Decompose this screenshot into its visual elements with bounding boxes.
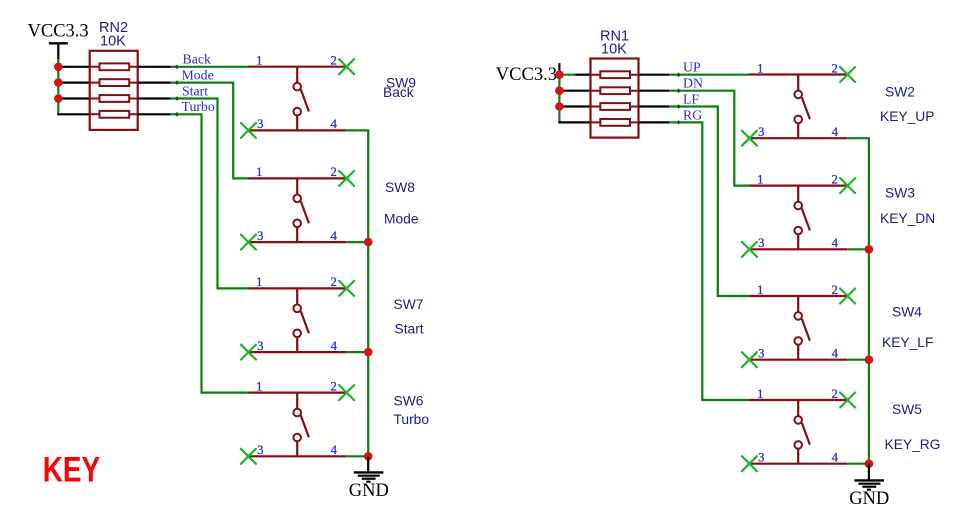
wire RN1 output row 2 (black)	[639, 90, 670, 92]
svg-text:Back: Back	[383, 85, 414, 100]
ground GND (right)	[849, 464, 889, 509]
SW7 upper stub	[296, 288, 298, 304]
SW2 no-connect X on pin 3	[742, 131, 757, 146]
SW5 lower stub	[797, 449, 799, 464]
wire GND collector (left)	[346, 130, 368, 456]
RN1 resistor element 1	[600, 71, 630, 78]
SW5 upper contact circle	[794, 416, 802, 424]
svg-text:Turbo: Turbo	[182, 99, 215, 114]
svg-text:Start: Start	[395, 322, 424, 337]
wire VCC to RN1 row 1 (black segment)	[576, 74, 592, 76]
wire SW7 pin4 to collector	[346, 351, 368, 353]
svg-text:1: 1	[256, 165, 262, 179]
SW2 upper stub	[797, 75, 799, 91]
SW2 wire pin1-pin2	[749, 73, 847, 75]
SW2 no-connect X on pin 2	[840, 67, 855, 82]
RN2 internal lead row 3	[90, 98, 138, 100]
svg-text:Turbo: Turbo	[394, 412, 430, 427]
RN2 resistor element 4	[100, 111, 130, 118]
svg-text:4: 4	[832, 347, 839, 361]
SW4 no-connect X on pin 2	[840, 289, 855, 304]
RN1 internal lead row 3	[591, 106, 639, 108]
wire VCC to RN2 pin row 3 (left)	[57, 97, 90, 99]
svg-text:3: 3	[257, 117, 263, 131]
junction VCC bus row 2 (left)	[54, 78, 63, 87]
SW9 lower contact circle	[293, 108, 301, 116]
svg-text:3: 3	[758, 236, 764, 250]
svg-text:DN: DN	[683, 76, 703, 91]
SW9 wire pin1-pin2	[248, 66, 346, 68]
svg-text:10K: 10K	[601, 42, 627, 58]
SW4 lower contact circle	[794, 337, 802, 345]
net label tick RG	[676, 120, 681, 125]
SW6 no-connect X on pin 2	[339, 385, 354, 400]
SW6 wire pin3-pin4	[248, 455, 346, 457]
SW4 upper contact circle	[794, 312, 802, 320]
SW2 actuator arm	[802, 97, 810, 119]
svg-text:Mode: Mode	[384, 212, 419, 227]
SW6 no-connect X on pin 3	[241, 449, 256, 464]
junction SW7 pin4 (left)	[364, 348, 373, 357]
svg-text:3: 3	[758, 451, 764, 465]
wire VCC to RN2 pin row 1 (left)	[57, 66, 90, 68]
svg-text:KEY_RG: KEY_RG	[885, 437, 941, 452]
SW3 actuator arm	[802, 208, 810, 230]
svg-text:2: 2	[831, 61, 837, 75]
RN2 resistor element 2	[100, 79, 130, 86]
SW2 lower contact circle	[794, 116, 802, 124]
wire RN1 output row 4 (black)	[639, 121, 670, 123]
SW9 upper stub	[296, 67, 298, 83]
power symbol VCC3.3 (right)	[496, 63, 560, 85]
SW6 lower contact circle	[293, 434, 301, 442]
wire VCC vertical bus (right, green)	[558, 75, 560, 123]
wire VCC to RN1 row 1 (green segment)	[559, 74, 575, 76]
SW5 no-connect X on pin 2	[840, 393, 855, 408]
svg-text:Back: Back	[183, 52, 211, 67]
SW6 upper contact circle	[293, 409, 301, 417]
SW8 upper contact circle	[293, 195, 301, 203]
wire net Start	[171, 99, 248, 289]
svg-text:3: 3	[257, 229, 263, 243]
SW3 lower stub	[797, 234, 799, 249]
junction VCC bus row 3 (left)	[54, 94, 63, 103]
junction SW5 pin4 / GND (right)	[865, 459, 874, 468]
wire RN2 output row 2 (black)	[138, 81, 171, 83]
SW4 no-connect X on pin 3	[742, 352, 757, 367]
SW3 lower contact circle	[794, 227, 802, 235]
svg-text:SW7: SW7	[394, 297, 424, 312]
wire net LF	[669, 107, 749, 297]
wire SW6 pin4 to collector	[346, 455, 368, 457]
wire GND collector (right)	[847, 138, 869, 464]
svg-text:1: 1	[256, 54, 262, 68]
SW9 wire pin3-pin4	[248, 129, 346, 131]
SW4 wire pin3-pin4	[749, 359, 847, 361]
svg-text:LF: LF	[683, 91, 699, 106]
RN2 internal lead row 1	[90, 66, 138, 68]
SW4 actuator arm	[802, 319, 810, 341]
svg-text:KEY: KEY	[43, 449, 100, 489]
switch SW6	[241, 379, 354, 463]
SW8 no-connect X on pin 2	[339, 171, 354, 186]
SW7 lower stub	[296, 337, 298, 352]
svg-text:4: 4	[331, 229, 338, 243]
wire net Mode	[171, 83, 248, 179]
junction VCC bus row 1 (right)	[555, 70, 564, 79]
SW5 upper stub	[797, 400, 799, 416]
wire RN1 output row 3 (black)	[639, 105, 670, 107]
switch SW8	[241, 165, 354, 249]
RN1 internal lead row 1	[591, 74, 639, 76]
svg-text:SW8: SW8	[385, 180, 415, 195]
net label tick Turbo	[175, 112, 180, 117]
SW6 upper stub	[296, 393, 298, 409]
SW3 no-connect X on pin 3	[742, 242, 757, 257]
svg-text:3: 3	[257, 339, 263, 353]
wire VCC to RN1 pin row 4	[558, 121, 591, 123]
RN2 resistor element 1	[100, 63, 130, 70]
svg-text:SW3: SW3	[885, 186, 915, 201]
SW7 no-connect X on pin 3	[241, 345, 256, 360]
SW2 upper contact circle	[794, 91, 802, 99]
SW8 wire pin1-pin2	[248, 177, 346, 179]
svg-text:UP: UP	[683, 60, 701, 75]
SW5 wire pin1-pin2	[749, 399, 847, 401]
RN1 resistor element 3	[600, 103, 630, 110]
SW7 lower contact circle	[293, 330, 301, 338]
svg-text:SW2: SW2	[885, 85, 915, 100]
svg-text:2: 2	[330, 379, 336, 393]
svg-text:2: 2	[330, 54, 336, 68]
wire SW5 pin4 to collector	[847, 463, 869, 465]
SW5 wire pin3-pin4	[749, 463, 847, 465]
net label tick Start	[175, 96, 180, 101]
SW8 lower stub	[296, 227, 298, 242]
svg-text:VCC3.3: VCC3.3	[28, 22, 89, 42]
svg-text:1: 1	[256, 379, 262, 393]
SW3 upper contact circle	[794, 202, 802, 210]
wire VCC to RN1 pin row 2	[558, 90, 591, 92]
SW4 lower stub	[797, 345, 799, 360]
svg-text:KEY_UP: KEY_UP	[880, 109, 934, 124]
SW8 no-connect X on pin 3	[241, 235, 256, 250]
RN1 resistor element 2	[600, 87, 630, 94]
svg-text:1: 1	[757, 61, 763, 75]
svg-text:3: 3	[758, 125, 764, 139]
switch SW9	[241, 54, 354, 138]
svg-text:4: 4	[331, 443, 338, 457]
SW9 actuator arm	[301, 90, 309, 112]
wire VCC to RN1 pin row 3	[558, 105, 591, 107]
net label tick Mode	[175, 80, 180, 85]
SW7 no-connect X on pin 2	[339, 281, 354, 296]
switch SW2	[742, 61, 855, 145]
SW2 lower stub	[797, 123, 799, 138]
svg-text:4: 4	[832, 236, 839, 250]
svg-text:SW5: SW5	[892, 402, 922, 417]
SW8 actuator arm	[301, 201, 309, 223]
SW9 no-connect X on pin 2	[339, 59, 354, 74]
net label tick LF	[676, 104, 681, 109]
SW7 actuator arm	[301, 311, 309, 333]
svg-text:1: 1	[757, 283, 763, 297]
switch SW4	[742, 283, 855, 367]
RN2 internal lead row 4	[90, 113, 138, 115]
switch SW7	[241, 275, 354, 359]
net label tick UP	[676, 72, 681, 77]
wire net Back	[171, 66, 248, 68]
net label tick Back	[175, 65, 180, 70]
svg-text:SW4: SW4	[892, 305, 922, 320]
svg-text:4: 4	[331, 339, 338, 353]
wire RN1 output row 1 (black)	[639, 74, 670, 76]
resistor network RN1 body	[591, 59, 639, 138]
SW7 wire pin3-pin4	[248, 351, 346, 353]
switch SW5	[742, 387, 855, 471]
wire VCC vertical bus (left, green)	[57, 59, 59, 114]
SW4 wire pin1-pin2	[749, 295, 847, 297]
SW9 upper contact circle	[293, 83, 301, 91]
junction SW3 pin4 (right)	[865, 245, 874, 254]
ground GND (left)	[349, 456, 389, 501]
RN1 internal lead row 2	[591, 90, 639, 92]
SW9 lower stub	[296, 115, 298, 130]
SW5 no-connect X on pin 3	[742, 456, 757, 471]
SW6 wire pin1-pin2	[248, 392, 346, 394]
SW4 upper stub	[797, 296, 799, 312]
svg-text:2: 2	[330, 275, 336, 289]
svg-text:1: 1	[757, 387, 763, 401]
SW7 wire pin1-pin2	[248, 287, 346, 289]
SW8 upper stub	[296, 178, 298, 194]
wire net RG	[669, 122, 749, 400]
SW6 actuator arm	[301, 415, 309, 437]
net label tick DN	[676, 88, 681, 93]
svg-text:2: 2	[831, 387, 837, 401]
junction SW4 pin4 (right)	[865, 355, 874, 364]
svg-text:SW6: SW6	[394, 394, 424, 409]
svg-text:1: 1	[757, 172, 763, 186]
SW3 wire pin1-pin2	[749, 185, 847, 187]
svg-text:3: 3	[758, 347, 764, 361]
SW2 wire pin3-pin4	[749, 137, 847, 139]
svg-text:4: 4	[832, 451, 839, 465]
wire net DN	[669, 91, 749, 186]
SW6 lower stub	[296, 441, 298, 456]
junction VCC bus row 2 (right)	[555, 86, 564, 95]
svg-text:GND: GND	[849, 489, 889, 509]
svg-text:2: 2	[831, 283, 837, 297]
SW3 wire pin3-pin4	[749, 248, 847, 250]
RN1 internal lead row 4	[591, 121, 639, 123]
junction VCC bus row 1 (left)	[54, 63, 63, 72]
wire RN2 output row 1 (black)	[138, 66, 171, 68]
svg-text:4: 4	[331, 117, 338, 131]
wire VCC to RN2 pin row 4 (left)	[57, 113, 90, 115]
SW8 wire pin3-pin4	[248, 241, 346, 243]
SW3 no-connect X on pin 2	[840, 178, 855, 193]
svg-text:KEY_DN: KEY_DN	[880, 211, 935, 226]
SW9 no-connect X on pin 3	[241, 123, 256, 138]
RN2 internal lead row 2	[90, 82, 138, 84]
svg-text:10K: 10K	[100, 33, 126, 49]
SW3 upper stub	[797, 186, 799, 202]
junction SW6 pin4 / GND (left)	[364, 452, 373, 461]
power symbol VCC3.3 (left)	[28, 22, 89, 61]
svg-text:RG: RG	[683, 107, 702, 122]
svg-text:VCC3.3: VCC3.3	[496, 65, 557, 85]
svg-text:3: 3	[257, 443, 263, 457]
wire RN2 output row 4 (black)	[138, 113, 171, 115]
svg-text:4: 4	[832, 125, 839, 139]
switch SW3	[742, 172, 855, 256]
SW8 lower contact circle	[293, 220, 301, 228]
resistor network RN2 body	[90, 51, 138, 130]
svg-text:2: 2	[330, 165, 336, 179]
wire SW3 pin4 to collector	[847, 248, 869, 250]
svg-text:KEY_LF: KEY_LF	[882, 335, 933, 350]
svg-text:1: 1	[256, 275, 262, 289]
svg-text:GND: GND	[349, 481, 389, 501]
SW7 upper contact circle	[293, 305, 301, 313]
wire net Turbo	[171, 114, 248, 392]
RN1 resistor element 4	[600, 119, 630, 126]
wire SW4 pin4 to collector	[847, 359, 869, 361]
junction SW8 pin4 (left)	[364, 238, 373, 247]
wire RN2 output row 3 (black)	[138, 97, 171, 99]
junction VCC bus row 3 (right)	[555, 102, 564, 111]
wire VCC to RN2 pin row 2 (left)	[57, 81, 90, 83]
wire net UP	[669, 74, 749, 76]
wire SW8 pin4 to collector	[346, 241, 368, 243]
SW5 lower contact circle	[794, 441, 802, 449]
RN2 resistor element 3	[100, 95, 130, 102]
svg-text:2: 2	[831, 172, 837, 186]
svg-text:Mode: Mode	[182, 68, 214, 83]
SW5 actuator arm	[802, 423, 810, 445]
svg-text:Start: Start	[182, 83, 208, 98]
